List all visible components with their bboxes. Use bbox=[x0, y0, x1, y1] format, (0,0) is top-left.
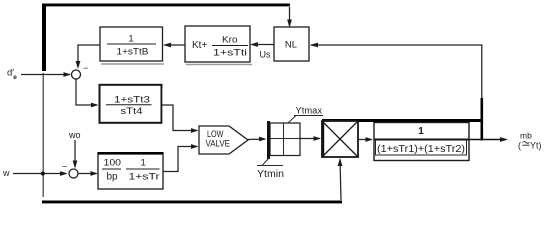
wire: limiter to multiplier bbox=[300, 138, 320, 140]
svg-text:e: e bbox=[13, 74, 17, 81]
svg-text:(1+sTr1)+(1+sTr2): (1+sTr1)+(1+sTr2) bbox=[377, 144, 465, 155]
frame left thin vertical line bbox=[43, 73, 44, 197]
svg-text:1: 1 bbox=[128, 34, 133, 45]
summing junction 2 bbox=[69, 169, 78, 178]
wire: d'e input to summing junction 1 bbox=[21, 74, 70, 76]
label Ytmax bbox=[288, 106, 323, 124]
junction dot on w line bbox=[41, 172, 45, 176]
svg-text:1+sTtB: 1+sTtB bbox=[117, 47, 149, 58]
frame right thick vertical segment bbox=[481, 98, 484, 141]
svg-text:100: 100 bbox=[104, 158, 122, 169]
block NL (nonlinearity) U-NL bbox=[274, 27, 309, 61]
summing junction 1 bbox=[72, 70, 81, 79]
block 1/((1+sTr1)+(1+sTr2)) bbox=[374, 123, 469, 161]
svg-text:Kt+: Kt+ bbox=[192, 40, 207, 51]
svg-text:wo: wo bbox=[68, 130, 81, 140]
svg-text:1: 1 bbox=[141, 158, 146, 169]
label Ytmin bbox=[257, 157, 284, 180]
svg-text:Kro: Kro bbox=[222, 35, 238, 46]
block (1+sTt3)/sTt4 bbox=[100, 85, 163, 123]
svg-text:LOW: LOW bbox=[207, 129, 224, 139]
svg-text:1+sTr: 1+sTr bbox=[129, 172, 160, 183]
svg-text:w: w bbox=[2, 168, 10, 178]
svg-text:1+sTt3: 1+sTt3 bbox=[114, 95, 150, 106]
block 1/(1+sTtB) bbox=[100, 27, 164, 64]
svg-text:1: 1 bbox=[418, 126, 424, 137]
svg-text:1+sTti: 1+sTti bbox=[213, 48, 247, 59]
wire: w input to summing junction 2 bbox=[13, 173, 66, 175]
svg-text:sTt4: sTt4 bbox=[121, 106, 143, 117]
svg-text:Ytmax: Ytmax bbox=[296, 106, 323, 117]
wire: multiplier to transfer block bbox=[358, 139, 372, 141]
wire: NL to Kt block, node Us bbox=[252, 44, 275, 46]
wire: 1/(1+sTtB) to summing junction 1 bbox=[78, 45, 100, 66]
wire: LOW VALVE to limiter bbox=[248, 138, 265, 141]
wire: 100/bp block to LOW VALVE bottom input bbox=[163, 147, 197, 172]
wire: summing junction 2 to 100/bp block bbox=[78, 173, 97, 175]
block 100/bp 1/(1+sTr) bbox=[98, 152, 164, 189]
svg-text:Us: Us bbox=[260, 50, 271, 60]
frame right thick horizontal line bbox=[322, 119, 483, 122]
wire: bottom frame line up into multiplier bbox=[340, 160, 341, 201]
wire: (1+sTt3)/sTt4 to LOW VALVE top input bbox=[161, 105, 197, 131]
svg-text:−: − bbox=[62, 162, 67, 172]
block Kt + Kro/(1+sTti) bbox=[185, 26, 252, 65]
svg-text:VALVE: VALVE bbox=[206, 139, 231, 149]
limiter Ytmax/Ytmin bbox=[267, 121, 300, 159]
wire: top line down into NL bbox=[289, 7, 291, 26]
svg-text:NL: NL bbox=[285, 40, 297, 51]
wire: wo down into summing junction 2 bbox=[74, 140, 76, 167]
block LOW VALVE selector bbox=[199, 126, 248, 154]
wire: output mb bbox=[469, 139, 506, 141]
svg-text:mb: mb bbox=[520, 131, 532, 141]
svg-text:−: − bbox=[83, 63, 88, 73]
multiplier X block bbox=[322, 121, 358, 157]
wire: summing junction 1 down to (1+sTt3)/sTt4 block bbox=[76, 79, 97, 105]
frame bottom thick line bbox=[42, 201, 342, 204]
svg-text:bp: bp bbox=[107, 172, 119, 183]
wire: feedback from output up to NL bbox=[311, 45, 482, 98]
svg-text:Ytmin: Ytmin bbox=[257, 169, 284, 180]
frame top thick line bbox=[42, 4, 290, 7]
frame left thick line bbox=[42, 4, 46, 72]
wire: Kt block to 1/(1+sTtB) block bbox=[165, 44, 186, 46]
